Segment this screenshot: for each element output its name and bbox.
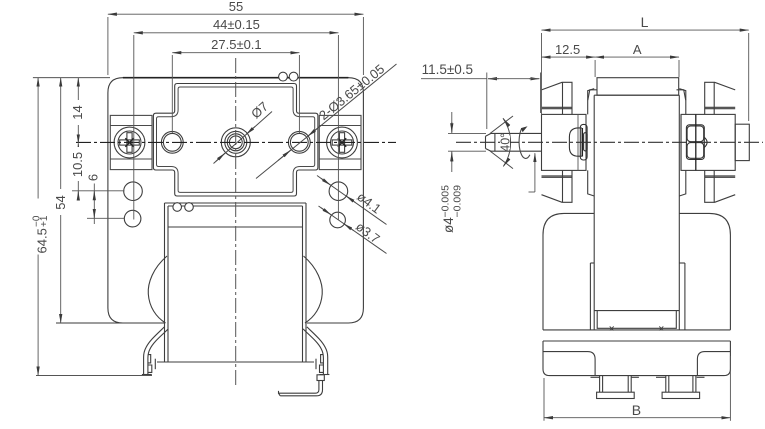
svg-text:40°: 40° — [499, 133, 513, 152]
svg-text:11.5±0.5: 11.5±0.5 — [422, 62, 473, 77]
svg-text:−0.005: −0.005 — [440, 185, 452, 218]
svg-text:27.5±0.1: 27.5±0.1 — [211, 37, 262, 52]
svg-text:−0: −0 — [32, 215, 43, 227]
svg-text:ø4: ø4 — [441, 217, 456, 233]
svg-text:12.5: 12.5 — [555, 42, 580, 57]
svg-text:55: 55 — [229, 0, 243, 14]
svg-text:B: B — [632, 402, 641, 418]
svg-text:64.5: 64.5 — [35, 228, 50, 253]
svg-text:14: 14 — [70, 105, 85, 119]
svg-text:A: A — [633, 42, 642, 57]
svg-text:−0.009: −0.009 — [452, 185, 464, 218]
svg-text:44±0.15: 44±0.15 — [213, 17, 260, 32]
svg-text:6: 6 — [86, 174, 101, 181]
svg-text:54: 54 — [53, 195, 68, 209]
svg-text:10.5: 10.5 — [70, 152, 85, 177]
svg-text:L: L — [641, 14, 649, 30]
